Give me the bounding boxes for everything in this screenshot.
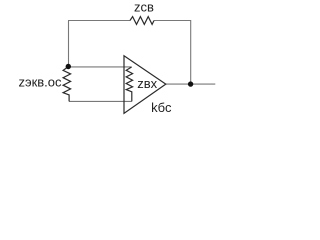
wire output: [166, 83, 216, 85]
svg-text:zвх: zвх: [137, 76, 157, 91]
resistor Zвх (input impedance inside amplifier, vertical zigzag): [126, 67, 132, 101]
wire feedback right vertical: [190, 20, 192, 84]
wire feedback left vertical: [68, 21, 70, 67]
wire feedback top left segment: [68, 20, 130, 22]
wire bottom input rail: [69, 100, 132, 102]
resistor Zсв (feedback impedance, horizontal zigzag): [130, 17, 154, 25]
wire top input rail: [68, 66, 131, 68]
op-amp / amplifier triangle: [124, 56, 166, 114]
node junction dot at output: [188, 81, 193, 86]
wire feedback top right segment: [154, 20, 191, 22]
resistor Zэкв.ос (equivalent feedback impedance, vertical zigzag): [63, 67, 71, 102]
svg-text:zсв: zсв: [134, 0, 154, 14]
svg-text:kбc: kбc: [151, 100, 172, 115]
node junction dot at top of Zэкв.ос: [66, 64, 71, 69]
svg-text:zэкв.ос: zэкв.ос: [18, 75, 62, 90]
